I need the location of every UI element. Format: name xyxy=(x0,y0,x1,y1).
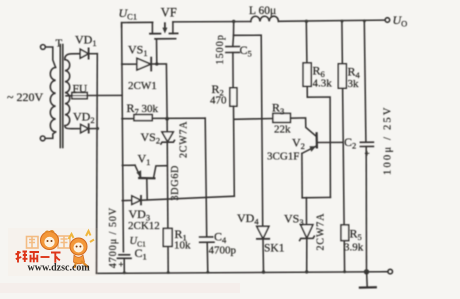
resistor R2 xyxy=(230,88,237,106)
svg-text:+: + xyxy=(365,149,370,159)
diode VD4 xyxy=(257,226,269,238)
transistor V1 emitter arrow xyxy=(135,165,140,176)
transistor V1 emitter wire xyxy=(122,164,135,166)
wire top rail mid segment xyxy=(173,21,251,23)
svg-text:T: T xyxy=(56,38,63,50)
MOSFET VF drain stub xyxy=(151,22,153,33)
wire secondary bottom to VD2 xyxy=(65,126,81,129)
svg-text:4700μ / 50V: 4700μ / 50V xyxy=(108,207,119,268)
wire error amp vertical xyxy=(167,119,168,273)
svg-text:1500p: 1500p xyxy=(215,34,226,65)
wire left vertical rail xyxy=(122,23,124,252)
watermark mascot head left xyxy=(41,232,59,250)
MOSFET VF gate bar xyxy=(155,38,176,40)
junction R7-VS2 node xyxy=(165,117,169,121)
transistor V2 base bar xyxy=(316,133,318,147)
wire VD2 cathode to rail xyxy=(90,128,98,130)
wire R6 bottom bend xyxy=(307,86,330,197)
transistor V1 base lead xyxy=(146,179,148,200)
wire VD1 cathode to rail xyxy=(90,53,98,55)
resistor R6 xyxy=(303,63,311,86)
wire R3 xyxy=(234,118,273,121)
watermark faint orange text blobs xyxy=(27,236,71,248)
resistor R5 xyxy=(341,225,349,241)
wire V2 emitter drop xyxy=(301,153,303,197)
fuse FU xyxy=(72,93,87,99)
junction VD2-rail xyxy=(96,127,99,130)
svg-text:470: 470 xyxy=(210,95,227,107)
capacitor C5 xyxy=(226,46,240,48)
wire FU to left rail xyxy=(87,94,122,96)
diode VD1 xyxy=(80,49,88,58)
zener VS1 xyxy=(137,58,151,70)
junction bottom VS3 xyxy=(305,270,308,273)
transistor V1 collector xyxy=(154,166,167,178)
wire emitter node horizontal xyxy=(302,196,330,198)
wire center tap to FU xyxy=(66,95,72,97)
svg-text:3k: 3k xyxy=(348,78,360,90)
wire R4/R5 column xyxy=(342,21,345,272)
wire VS1 to gate node and down to R7 node xyxy=(152,64,167,119)
wire top rail right segment xyxy=(278,20,385,21)
svg-text:2CW7A: 2CW7A xyxy=(179,121,190,158)
MOSFET VF source stub xyxy=(172,22,174,34)
wire C5 to R2 xyxy=(232,53,234,88)
watermark mascot right xyxy=(69,231,95,268)
svg-text:4.3k: 4.3k xyxy=(313,78,333,90)
node UO output terminal xyxy=(385,18,390,23)
transformer T secondary winding xyxy=(65,60,70,126)
wire primary top xyxy=(45,47,55,67)
resistor R7 xyxy=(122,118,134,120)
junction rail-R6 xyxy=(305,20,308,23)
wire VD3 node horizontal xyxy=(122,199,132,201)
svg-text:VF: VF xyxy=(161,6,177,20)
wire rectifier output vertical xyxy=(96,54,99,274)
junction bottom R1 xyxy=(167,271,170,274)
svg-text:+: + xyxy=(119,260,124,270)
transformer T core xyxy=(59,45,61,148)
junction bottom R5 xyxy=(343,270,346,273)
wire R7 drop at x205 xyxy=(205,118,207,236)
transformer T primary winding xyxy=(50,67,55,132)
watermark pink haze band xyxy=(0,283,240,293)
svg-text:2CK12: 2CK12 xyxy=(128,220,160,232)
wire top rail left segment xyxy=(122,22,153,27)
svg-text:100μ / 25V: 100μ / 25V xyxy=(383,105,394,175)
junction rail-C5 xyxy=(232,20,235,23)
resistor R1 xyxy=(163,228,172,246)
capacitor C1 xyxy=(119,254,130,256)
transistor V2 emitter with arrow xyxy=(302,146,317,154)
svg-text:22k: 22k xyxy=(274,124,291,136)
svg-text:2CW7A: 2CW7A xyxy=(316,213,327,251)
junction ground xyxy=(364,269,369,274)
junction rail-C2 xyxy=(363,19,366,22)
svg-text:2CW1: 2CW1 xyxy=(128,80,157,92)
resistor R3 xyxy=(273,113,291,122)
zener VS3 xyxy=(301,225,313,238)
wire secondary top to VD1 xyxy=(65,54,80,60)
wire VS1 branch xyxy=(122,63,137,65)
zener VS2 xyxy=(162,132,173,142)
wire bottom rail xyxy=(97,272,388,274)
MOSFET VF substrate arrow xyxy=(164,23,166,29)
wire primary bottom xyxy=(45,132,55,139)
wire R2 bottom to node xyxy=(233,106,236,196)
svg-text:10k: 10k xyxy=(174,240,191,252)
wire VS3 drop xyxy=(305,198,307,225)
svg-text:SK1: SK1 xyxy=(264,243,285,255)
node output bottom terminal xyxy=(388,269,393,274)
ground xyxy=(366,272,369,287)
svg-text:R7 30k: R7 30k xyxy=(127,101,159,117)
wire branch to VD4 column xyxy=(234,35,263,226)
junction gate-VS1 wire xyxy=(155,62,158,65)
resistor R4 xyxy=(338,64,346,88)
svg-text:FU: FU xyxy=(73,84,88,96)
wire C2 column xyxy=(364,21,366,142)
diode VD3 xyxy=(132,196,141,205)
transistor V1 base bar xyxy=(139,177,154,180)
wire R6 column xyxy=(305,21,308,63)
svg-text:3.9k: 3.9k xyxy=(344,242,364,254)
transistor V2 collector xyxy=(317,141,343,143)
svg-text:3DG6D: 3DG6D xyxy=(170,165,181,201)
diode VD2 xyxy=(81,124,89,132)
junction bottom VD4 xyxy=(262,270,265,273)
junction bottom C4 xyxy=(206,271,209,274)
wire VF gate down xyxy=(156,39,158,64)
capacitor C2 xyxy=(360,141,373,143)
junction rail-R4 xyxy=(341,20,344,23)
capacitor C4 xyxy=(200,236,213,238)
transformer T primary terminal top xyxy=(41,45,46,50)
inductor L1 60u xyxy=(251,16,279,21)
watermark red text 维库一下 xyxy=(16,251,61,263)
svg-text:www.dzsc.com: www.dzsc.com xyxy=(28,263,91,274)
transformer T primary terminal bottom xyxy=(40,136,45,141)
wire C5/R2 column top xyxy=(232,21,235,46)
svg-text:3CG1F: 3CG1F xyxy=(267,151,299,163)
svg-text:L 60μ: L 60μ xyxy=(249,5,276,17)
svg-text:4700p: 4700p xyxy=(209,245,237,257)
svg-text:~ 220V: ~ 220V xyxy=(7,90,43,104)
junction bottom C1 xyxy=(123,271,126,274)
